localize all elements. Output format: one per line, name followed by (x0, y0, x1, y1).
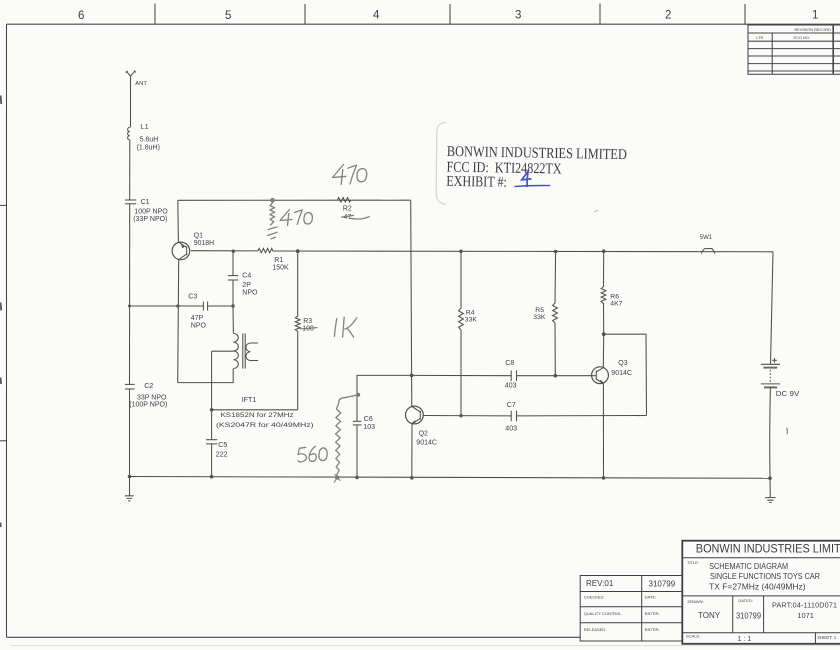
wire C8 branch (412, 374, 592, 376)
handwritten resistor (470) vertical (268, 203, 278, 239)
wire Q3 emitter down (602, 384, 604, 478)
svg-text:IFT1: IFT1 (242, 396, 257, 404)
resistor R4 (459, 251, 464, 415)
svg-text:9014C: 9014C (416, 440, 437, 447)
svg-text:Q3: Q3 (618, 360, 627, 367)
svg-text:R3: R3 (303, 318, 312, 325)
svg-text:TONY: TONY (698, 611, 721, 620)
wire IFT1 return loop (178, 369, 234, 383)
svg-text:150K: 150K (272, 264, 289, 271)
svg-text:5W1: 5W1 (700, 235, 713, 241)
svg-text:TITLE:: TITLE: (687, 560, 699, 565)
svg-text:Q1: Q1 (194, 232, 203, 239)
svg-text:310799: 310799 (736, 612, 762, 621)
svg-text:C4: C4 (242, 272, 251, 279)
node R5 junction (554, 374, 558, 378)
svg-text:REVISION RECORD: REVISION RECORD (794, 27, 831, 32)
svg-text:R6: R6 (610, 293, 619, 300)
node: C3 tap junction (128, 305, 131, 308)
ground (right) (765, 478, 776, 502)
svg-text:5: 5 (225, 10, 231, 22)
handwritten 470 large (333, 165, 367, 185)
svg-text:DATE:: DATE: (645, 595, 656, 600)
svg-text:ENTER:: ENTER: (645, 627, 660, 632)
svg-text:(KS2047R for 40/49MHz): (KS2047R for 40/49MHz) (216, 422, 314, 429)
wire Q1 emitter down (178, 260, 179, 383)
svg-text:2: 2 (665, 10, 671, 22)
resistor R3 (295, 251, 300, 410)
svg-text:R4: R4 (466, 309, 475, 316)
handwritten 1K (334, 317, 356, 337)
wire Q3 base stub (592, 375, 597, 377)
wire C7 right to R6 node (604, 334, 647, 415)
wire top loop horizontal (178, 199, 411, 201)
wire Q2 collector (411, 375, 413, 406)
svg-text:ECO NO:: ECO NO: (794, 35, 810, 40)
capacitor C2 (125, 384, 135, 389)
inductor L1 (128, 127, 130, 139)
wire R3 bottom to tap node (212, 409, 298, 411)
svg-text:33K: 33K (533, 314, 546, 321)
revision record table (top right) (748, 25, 840, 74)
svg-text:DATED:: DATED: (738, 598, 752, 603)
transistor Q1 (172, 242, 190, 260)
stray mark (595, 210, 599, 211)
node battery rail (768, 477, 772, 481)
handwritten strike/swoosh on R2 47 (342, 215, 370, 219)
svg-text:310799: 310799 (649, 580, 676, 589)
wire Q1 base / top rail (191, 251, 773, 252)
node R4 base junction (459, 414, 462, 417)
node left rail (128, 475, 132, 479)
node R4 top (459, 250, 463, 254)
bottom rail wire (130, 477, 771, 479)
ground (left) (125, 477, 134, 501)
svg-text:PART:04-1110D071: PART:04-1110D071 (772, 600, 837, 609)
node Q2 emitter rail (410, 476, 414, 480)
handwritten resistor 560 squiggle (336, 395, 359, 478)
node C3/C4 (231, 304, 234, 307)
svg-text:SCALE:: SCALE: (686, 634, 700, 639)
svg-text:C3: C3 (188, 293, 197, 300)
node C4 top (232, 250, 235, 253)
svg-text:C6: C6 (364, 416, 373, 423)
transistor Q2 (406, 406, 424, 424)
svg-text:Q2: Q2 (419, 430, 428, 437)
handwritten blue 4 (522, 170, 531, 186)
switch SW1 (702, 249, 715, 254)
revision table (bottom) (580, 576, 682, 642)
wire C3 branch (130, 305, 234, 307)
node Q3 emitter rail (602, 476, 606, 480)
svg-text:ANT: ANT (135, 81, 147, 87)
svg-text:R5: R5 (535, 307, 544, 314)
node C5 rail (210, 475, 214, 479)
battery BT DC 9V (761, 358, 780, 387)
node R5 top (554, 250, 558, 254)
transistor Q3 (592, 367, 609, 384)
svg-text:CHECKED:: CHECKED: (584, 595, 605, 600)
wire C4 node to IFT1 primary (232, 306, 234, 333)
svg-text:33K: 33K (465, 317, 478, 324)
grid numbers (78, 10, 818, 23)
svg-text:222: 222 (216, 451, 228, 459)
handwritten 560 (298, 446, 327, 462)
svg-text:QUALITY CONTROL: QUALITY CONTROL (584, 611, 622, 616)
svg-text:(1.8uH): (1.8uH) (137, 144, 160, 151)
svg-text:100P NPO: 100P NPO (134, 209, 168, 216)
capacitor C3 (203, 302, 207, 311)
transformer IFT1 (212, 333, 258, 368)
svg-text:4: 4 (373, 10, 380, 22)
node R6 bottom (602, 332, 606, 336)
capacitor C7 (511, 411, 516, 422)
svg-text:DC 9V: DC 9V (776, 391, 800, 398)
svg-text:EXHIBIT #:: EXHIBIT #: (446, 174, 507, 191)
svg-text:DRAWN:: DRAWN: (688, 599, 704, 604)
svg-text:3: 3 (515, 10, 521, 22)
resistor R1 (258, 248, 273, 252)
capacitor C5 (206, 410, 217, 477)
blue underline (514, 186, 550, 187)
svg-text:(100P NPO): (100P NPO) (129, 401, 167, 408)
svg-text:5.6uH: 5.6uH (140, 136, 159, 143)
wire Q1 collector up (177, 200, 180, 242)
wire C2 to ground rail (129, 389, 131, 477)
wire rail corner to battery (771, 252, 774, 364)
wire right side down (to Q2 collector node) (410, 200, 413, 375)
svg-text:C8: C8 (505, 360, 514, 367)
svg-text:6: 6 (78, 10, 84, 22)
svg-text:BONWIN INDUSTRIES LIMITED: BONWIN INDUSTRIES LIMITED (696, 544, 840, 556)
node tap/R3/C5 (210, 408, 214, 412)
svg-text:1071: 1071 (797, 611, 813, 620)
svg-text:C7: C7 (507, 402, 516, 409)
node C6 rail (355, 476, 359, 480)
handwritten mark near battery (786, 428, 789, 433)
svg-text:TX F=27MHz (40/49MHz): TX F=27MHz (40/49MHz) (709, 582, 806, 591)
svg-text:(33P NPO): (33P NPO) (133, 216, 167, 223)
svg-text:RELEASED:: RELEASED: (584, 627, 606, 632)
svg-text:403: 403 (505, 426, 517, 433)
handwritten 470 medium (280, 210, 312, 226)
svg-text:47: 47 (344, 214, 352, 221)
svg-text:NPO: NPO (191, 322, 207, 329)
svg-text:1: 1 (812, 10, 818, 22)
svg-text:R2: R2 (343, 205, 352, 212)
svg-text:NPO: NPO (242, 290, 258, 297)
node Q2 collector junction (410, 374, 414, 378)
svg-text:SHEET: 1: SHEET: 1 (817, 635, 837, 640)
svg-text:C1: C1 (141, 199, 150, 206)
wire to C6 branch (357, 375, 412, 421)
svg-text:9018H: 9018H (194, 240, 214, 247)
svg-text:403: 403 (505, 382, 517, 389)
capacitor C1 (125, 200, 136, 204)
svg-text:SINGLE FUNCTIONS TOYS CAR: SINGLE FUNCTIONS TOYS CAR (710, 572, 820, 581)
wire center tap down (211, 351, 213, 410)
svg-text:C5: C5 (218, 441, 227, 449)
svg-text:C2: C2 (144, 383, 153, 390)
svg-text:L1: L1 (141, 124, 149, 131)
resistor R6 (601, 251, 606, 334)
capacitor C8 (511, 371, 516, 382)
wire Q2 emitter (411, 424, 413, 478)
wire C1 to C2 (129, 204, 131, 385)
svg-text:103: 103 (363, 424, 375, 431)
strike through 100 (300, 328, 318, 329)
resistor R5 (553, 252, 558, 376)
svg-text:REV:01: REV:01 (586, 579, 614, 588)
antenna ANT (126, 71, 136, 128)
svg-text:KS1852N for 27MHz: KS1852N for 27MHz (221, 412, 295, 419)
svg-text:R1: R1 (274, 257, 283, 264)
svg-text:1 : 1: 1 : 1 (738, 636, 752, 643)
svg-text:LTR: LTR (756, 35, 763, 40)
wire Q3 collector up (602, 334, 604, 368)
svg-text:ENTER:: ENTER: (645, 611, 660, 616)
node R1/R3 (296, 249, 300, 253)
svg-text:SCHEMATIC DIAGRAM: SCHEMATIC DIAGRAM (709, 562, 788, 571)
node R6 top (602, 249, 606, 253)
capacitor C4 (228, 251, 238, 306)
sticker outline (436, 122, 446, 204)
svg-text:47P: 47P (191, 315, 204, 322)
svg-text:4K7: 4K7 (610, 301, 622, 308)
svg-text:9014C: 9014C (611, 370, 632, 377)
resistor R2 (337, 198, 350, 202)
wire battery to rail (769, 387, 772, 478)
svg-text:2P: 2P (242, 282, 251, 289)
wire Q2 base to C7 (423, 415, 646, 417)
wire L1 to C1 (129, 140, 131, 200)
node top junction (pencil) (270, 198, 275, 203)
node Q1 emitter / C3 (176, 304, 179, 307)
capacitor C6 (353, 421, 362, 477)
